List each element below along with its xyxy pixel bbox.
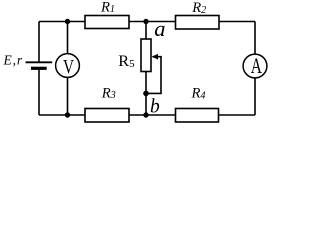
resistor R3	[85, 109, 129, 123]
svg-text:R3: R3	[101, 85, 116, 101]
wire top	[39, 21, 255, 23]
ammeter U-A circle	[243, 54, 267, 78]
svg-text:b: b	[150, 96, 160, 117]
wire R5 branch (node a to node b)	[145, 22, 147, 116]
svg-text:E,r: E,r	[3, 53, 24, 68]
svg-text:R2: R2	[191, 0, 206, 16]
wire voltmeter branch	[67, 22, 69, 116]
resistor R4	[176, 109, 219, 123]
battery E,r short plate	[31, 67, 47, 70]
resistor R1	[85, 16, 129, 29]
wiper arrowhead	[152, 54, 158, 60]
svg-text:A: A	[251, 53, 263, 78]
junction dot bottom-left	[65, 112, 70, 117]
wire wiper of R5	[148, 57, 161, 94]
svg-text:a: a	[154, 16, 165, 41]
junction dot bottom R5	[143, 112, 148, 117]
svg-text:R1: R1	[100, 0, 115, 15]
node a junction dot	[143, 19, 148, 24]
svg-text:V: V	[63, 56, 75, 78]
wire left lower (battery branch)	[38, 69, 40, 115]
resistor R2	[176, 16, 220, 30]
wire right (ammeter branch)	[254, 22, 256, 116]
voltmeter U-V circle	[56, 54, 80, 78]
svg-text:R5: R5	[118, 51, 135, 70]
battery E,r long plate	[26, 61, 53, 63]
wire left upper (battery branch)	[38, 22, 40, 62]
node b junction dot	[143, 91, 149, 97]
junction dot top-left	[65, 19, 70, 24]
wire bottom	[39, 114, 255, 116]
rheostat R5	[141, 39, 151, 72]
svg-text:R4: R4	[191, 86, 206, 102]
